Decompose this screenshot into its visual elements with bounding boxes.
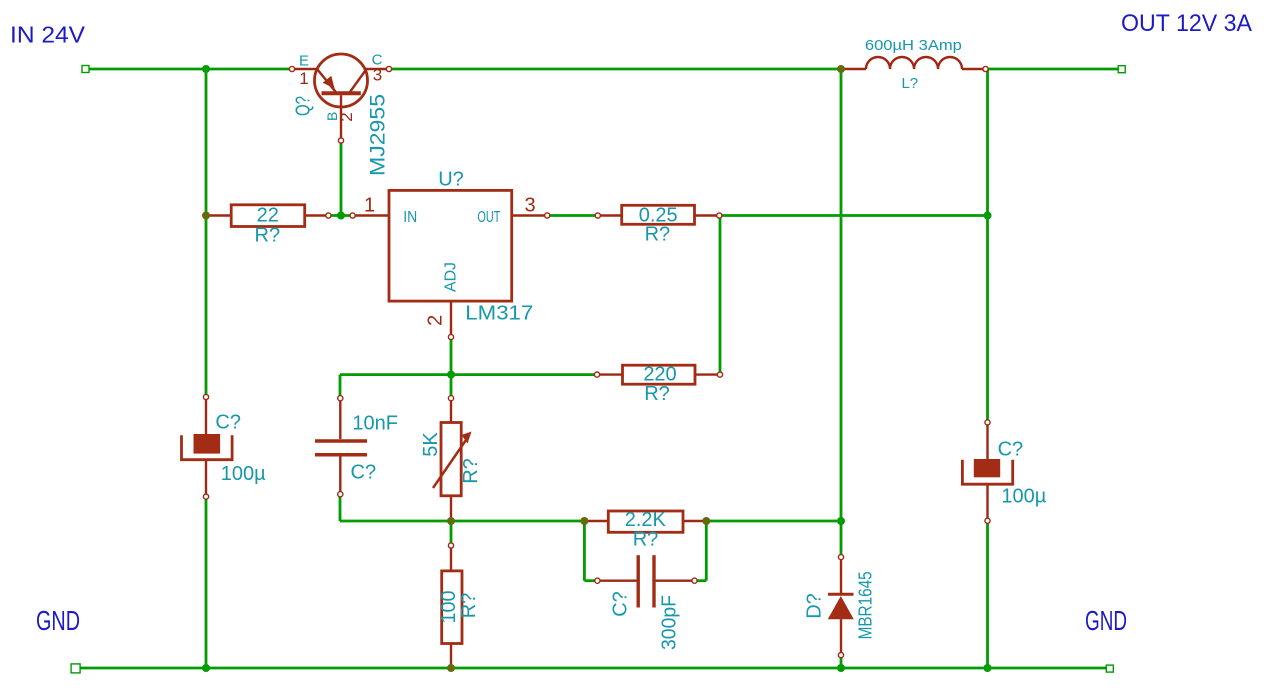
svg-text:R?: R? <box>644 383 670 405</box>
svg-text:R?: R? <box>458 593 480 619</box>
svg-text:R?: R? <box>255 224 281 246</box>
svg-text:300pF: 300pF <box>659 595 681 650</box>
svg-text:C?: C? <box>610 591 632 617</box>
svg-text:R?: R? <box>460 458 482 484</box>
svg-text:600µH 3Amp: 600µH 3Amp <box>865 37 962 54</box>
svg-text:10nF: 10nF <box>352 413 398 435</box>
svg-text:U?: U? <box>438 169 464 191</box>
svg-text:IN: IN <box>403 209 417 226</box>
svg-text:OUT: OUT <box>477 209 500 226</box>
svg-text:C?: C? <box>998 439 1024 461</box>
svg-text:LM317: LM317 <box>465 303 533 325</box>
svg-text:3: 3 <box>524 195 535 217</box>
svg-text:2: 2 <box>337 112 356 121</box>
svg-text:E: E <box>299 52 309 69</box>
svg-text:2: 2 <box>424 315 446 326</box>
svg-text:Q?: Q? <box>292 96 314 116</box>
svg-text:C?: C? <box>215 411 241 433</box>
svg-text:100µ: 100µ <box>221 463 266 485</box>
svg-text:OUT 12V 3A: OUT 12V 3A <box>1121 10 1252 37</box>
svg-text:C?: C? <box>351 461 377 483</box>
svg-text:1: 1 <box>299 69 308 88</box>
svg-text:R?: R? <box>633 529 659 551</box>
svg-text:MJ2955: MJ2955 <box>367 94 390 176</box>
svg-text:D?: D? <box>804 593 826 619</box>
svg-text:MBR1645: MBR1645 <box>856 571 876 639</box>
svg-text:R?: R? <box>645 224 671 246</box>
svg-text:3: 3 <box>373 66 382 85</box>
svg-text:1: 1 <box>364 195 375 217</box>
svg-text:22: 22 <box>257 205 279 227</box>
svg-text:IN 24V: IN 24V <box>10 21 85 47</box>
svg-text:100: 100 <box>438 591 460 624</box>
svg-text:100µ: 100µ <box>1001 486 1046 508</box>
svg-text:ADJ: ADJ <box>443 262 460 292</box>
svg-text:GND: GND <box>36 605 80 636</box>
svg-text:L?: L? <box>901 75 918 92</box>
svg-text:5K: 5K <box>420 432 442 457</box>
svg-text:GND: GND <box>1085 605 1127 636</box>
